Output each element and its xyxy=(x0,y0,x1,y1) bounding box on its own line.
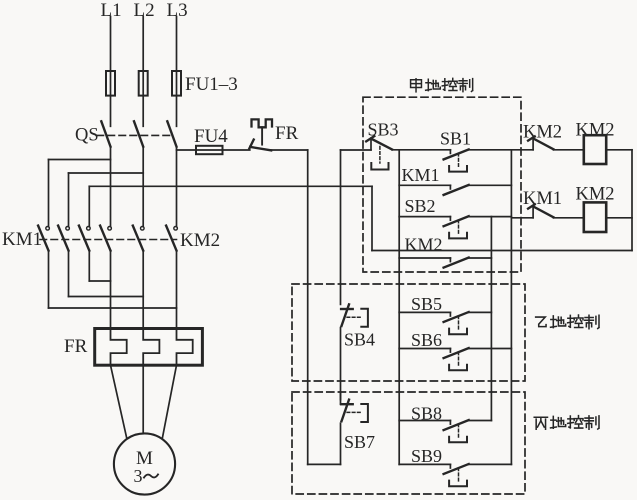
wire control return drop xyxy=(307,150,309,464)
wire right return xyxy=(631,150,633,251)
svg-text:KM2: KM2 xyxy=(576,185,615,205)
svg-text:FU4: FU4 xyxy=(194,126,228,147)
wire SB7 to SB4 xyxy=(340,328,342,400)
node bus A top xyxy=(398,150,400,465)
fuse FU1 xyxy=(106,71,115,96)
label KM1 row xyxy=(402,165,440,185)
svg-text:FU1–3: FU1–3 xyxy=(185,74,238,95)
contactor KM1 main contacts xyxy=(38,226,90,251)
svg-text:KM2: KM2 xyxy=(523,123,562,143)
wire c3 to heater1 xyxy=(89,280,110,282)
title yi di kong zhi xyxy=(536,315,599,329)
label KM1 contact row2 xyxy=(523,189,562,209)
start button SB8 xyxy=(399,420,491,442)
wire return bottom link xyxy=(308,463,341,465)
stop button SB3 xyxy=(366,136,392,169)
wire feed drop left of box xyxy=(371,186,373,250)
wire QS pole1 down xyxy=(110,147,112,227)
contactor KM2 main contacts xyxy=(100,226,177,251)
phase label L1 xyxy=(101,0,122,21)
wire c5 down xyxy=(142,251,144,329)
svg-text:SB2: SB2 xyxy=(405,196,436,216)
svg-text:SB1: SB1 xyxy=(440,129,471,149)
wire KM1 pole2 feed xyxy=(68,173,70,227)
heater element FR1 xyxy=(111,329,127,366)
wire c3 down xyxy=(88,251,90,281)
label SB8 xyxy=(411,404,442,424)
svg-text:3: 3 xyxy=(134,466,143,486)
thermal relay FR box xyxy=(95,329,203,366)
thermal relay contact FR xyxy=(249,119,272,150)
wire feed line2 to control xyxy=(177,185,373,187)
label FR top xyxy=(275,123,299,144)
wire KM1 pole1 feed xyxy=(48,160,50,227)
wire row1 to KM2 contact xyxy=(469,149,533,151)
svg-text:KM1: KM1 xyxy=(523,189,562,209)
label QS xyxy=(75,126,99,146)
switch QS xyxy=(97,121,177,146)
svg-text:KM1: KM1 xyxy=(402,165,440,185)
wire to SB7 xyxy=(340,423,342,464)
svg-text:KM2: KM2 xyxy=(576,121,615,141)
svg-text:SB6: SB6 xyxy=(411,330,442,350)
wire SB4 up to top row xyxy=(340,150,342,304)
label KM2 coil top xyxy=(576,121,615,141)
wire coil1 out xyxy=(606,149,632,151)
svg-text:SB7: SB7 xyxy=(344,432,375,452)
label SB4 xyxy=(344,330,375,350)
title bing di kong zhi xyxy=(534,416,599,430)
motor lead mid xyxy=(142,365,144,433)
label SB7 xyxy=(344,432,375,452)
label SB6 xyxy=(411,330,442,350)
label SB5 xyxy=(411,294,442,314)
interlock contact KM2 xyxy=(528,136,553,149)
wire coil2 out xyxy=(606,217,632,219)
node bus C xyxy=(490,217,492,421)
dashed box location B xyxy=(292,284,525,381)
mechanical link dashes xyxy=(40,239,177,241)
phase label L2 xyxy=(134,0,155,21)
wire neutral row xyxy=(372,250,632,252)
label FR box xyxy=(64,336,88,357)
label SB2 xyxy=(405,196,436,216)
coil KM2 top xyxy=(584,135,606,164)
start button SB9 xyxy=(399,464,511,486)
wire c1 down xyxy=(48,251,50,308)
svg-text:L2: L2 xyxy=(134,0,155,21)
fuse FU3 xyxy=(172,71,181,96)
stop button SB4 xyxy=(341,304,368,326)
wire c4 down xyxy=(110,251,112,329)
wire c2 down xyxy=(68,251,70,297)
svg-text:SB8: SB8 xyxy=(411,404,442,424)
svg-text:SB3: SB3 xyxy=(368,120,399,140)
wire control feed to FU4 xyxy=(177,149,250,151)
label KM2 row xyxy=(405,235,443,255)
wire L2 drop xyxy=(142,17,144,127)
heater element FR3 xyxy=(177,329,193,366)
wire row1 to SB1 xyxy=(392,149,451,151)
label SB3 xyxy=(368,120,399,140)
wire branch L1 to KM1 xyxy=(49,159,111,161)
label KM1 main xyxy=(2,229,42,250)
label SB1 xyxy=(440,129,471,149)
wire QS pole3 down xyxy=(176,147,178,227)
wire L3 drop xyxy=(176,17,178,127)
label SB9 xyxy=(411,446,442,466)
auxiliary contact KM2 row xyxy=(399,258,491,268)
wire L1 drop xyxy=(110,17,112,127)
wire to coil KM2 xyxy=(553,149,583,151)
wire branch L2 to KM1 xyxy=(69,172,144,174)
wire to SB3 xyxy=(341,149,372,151)
wire FR to node xyxy=(271,149,308,151)
heater element FR2 xyxy=(143,329,159,366)
wire c1 to heater3 xyxy=(49,307,177,309)
svg-text:SB4: SB4 xyxy=(344,330,375,350)
label KM2 contact top xyxy=(523,123,562,143)
label FU1-3 xyxy=(185,74,238,95)
svg-text:FR: FR xyxy=(275,123,299,144)
dashed box location C xyxy=(292,392,525,494)
svg-text:QS: QS xyxy=(75,126,99,146)
stop button SB7 xyxy=(341,392,368,422)
title jia di kong zhi xyxy=(411,78,473,91)
fuse FU4 xyxy=(196,146,223,154)
start button SB2 xyxy=(399,216,511,238)
label KM2 main xyxy=(180,230,220,251)
svg-text:SB5: SB5 xyxy=(411,294,442,314)
label KM2 coil bottom xyxy=(576,185,615,205)
svg-text:SB9: SB9 xyxy=(411,446,442,466)
start button SB1 xyxy=(444,149,469,171)
start button SB5 xyxy=(399,312,491,334)
svg-text:FR: FR xyxy=(64,336,88,357)
motor lead left xyxy=(111,365,127,438)
svg-text:KM2: KM2 xyxy=(405,235,443,255)
wire KM1 pole3 feed xyxy=(88,186,90,226)
wire to coil2 xyxy=(553,217,583,219)
svg-text:KM2: KM2 xyxy=(180,230,220,251)
label FU4 xyxy=(194,126,228,147)
phase label L3 xyxy=(167,0,188,21)
motor lead right xyxy=(162,365,176,438)
fuse FU2 xyxy=(139,71,148,96)
wire QS pole2 down xyxy=(142,147,144,227)
wire branch L3 to KM1 xyxy=(89,185,176,187)
svg-text:KM1: KM1 xyxy=(2,229,42,250)
start button SB6 xyxy=(399,348,511,370)
motor M xyxy=(114,433,175,494)
coil KM2 bottom xyxy=(584,202,606,232)
dashed box location A xyxy=(363,97,521,272)
node bus B xyxy=(510,150,512,465)
wire c6 down xyxy=(176,251,178,329)
auxiliary contact KM1 xyxy=(399,185,511,195)
wire c2 to heater2 xyxy=(69,296,144,298)
interlock contact KM1 row2 xyxy=(511,204,553,217)
